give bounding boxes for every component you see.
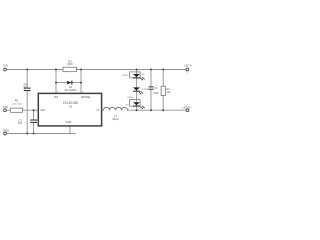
svg-text:VIN: VIN [3,64,8,68]
svg-text:0R3: 0R3 [67,62,73,66]
LED D-LED2 [133,87,140,90]
node ADJ-C3 [33,109,35,111]
wire ADJ line [7,109,39,111]
capacitor C3 (ADJ) [30,120,37,121]
wire R3 vertical [162,70,164,111]
svg-text:100n: 100n [154,92,160,95]
wire C3 vertical [33,110,35,133]
wire C1 vertical [26,70,28,134]
svg-text:1: 1 [82,92,83,94]
svg-text:VIN: VIN [54,95,58,99]
node D1 left [55,82,57,84]
svg-text:5: 5 [57,92,58,94]
resistor R1 (sense) [63,67,77,72]
wire top VIN rail [7,69,186,71]
op-amp U1 ZXLD1350 IC box [38,93,101,126]
terminal LED K [186,109,189,112]
svg-text:LED3: LED3 [127,97,133,99]
svg-text:GND: GND [66,120,72,124]
node C2 top [150,69,152,71]
LED D-LED1 [130,72,141,78]
capacitor C2 [148,86,153,87]
wire VIN pin vertical [55,70,57,94]
node D1 right [80,82,82,84]
terminal ADJ [4,109,7,112]
inductor L1 [104,107,128,110]
node LED top [136,69,138,71]
svg-text:LED K: LED K [183,105,191,109]
svg-text:LED2: LED2 [142,89,148,91]
node C1 top [26,69,28,71]
terminal LED A [186,68,189,71]
wire GND pin vertical [69,126,71,134]
diode D1 [67,81,71,85]
svg-text:ADJ: ADJ [3,105,9,109]
node C1 gnd [26,133,28,135]
terminal GND [4,132,7,135]
svg-text:(see text): (see text) [12,103,21,106]
node C3 gnd [33,133,35,135]
svg-text:LED1: LED1 [122,75,128,77]
wire ground rail [7,133,76,135]
svg-text:R2: R2 [15,99,19,103]
wire D1 horizontal [56,82,81,84]
node LED bottom [136,109,138,111]
svg-text:4µ7: 4µ7 [23,86,28,89]
node R3 bottom [162,109,164,111]
svg-text:LED A: LED A [184,63,192,67]
capacitor C1 [24,88,31,89]
node R3 top [162,69,164,71]
node C2 bottom [150,109,152,111]
node ISENSE pin [80,69,82,71]
svg-text:68µH: 68µH [112,117,118,121]
svg-text:10n: 10n [18,121,23,125]
node VIN pin [55,69,57,71]
svg-text:LX: LX [96,108,99,112]
wire LX/output rail [102,109,104,111]
svg-text:ADJ: ADJ [40,108,46,112]
resistor R2 (ADJ series) [11,108,23,112]
svg-text:GND: GND [3,128,9,132]
wire ISENSE pin vertical [80,70,82,94]
svg-text:ZLLS1000: ZLLS1000 [65,88,78,92]
terminal VIN [4,68,7,71]
wire LED chain vertical [136,70,138,111]
wire C2 vertical [150,70,152,111]
svg-text:U1: U1 [69,105,73,109]
svg-text:ISENSE: ISENSE [81,95,91,99]
resistor R3 [161,86,165,95]
